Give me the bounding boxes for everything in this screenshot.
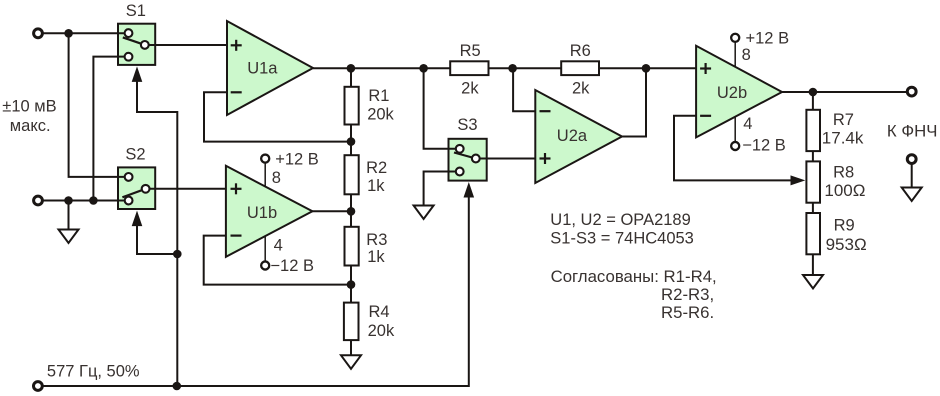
svg-text:U2b: U2b — [717, 84, 747, 102]
svg-text:макс.: макс. — [10, 117, 51, 135]
svg-text:−12 В: −12 В — [270, 257, 314, 275]
svg-text:+12 В: +12 В — [746, 30, 790, 48]
svg-text:+12 В: +12 В — [275, 150, 319, 168]
svg-text:U1, U2 = OPA2189: U1, U2 = OPA2189 — [550, 211, 690, 229]
svg-text:577 Гц, 50%: 577 Гц, 50% — [47, 363, 140, 381]
svg-text:±10 мВ: ±10 мВ — [2, 98, 56, 116]
svg-text:Согласованы: R1-R4,: Согласованы: R1-R4, — [551, 267, 717, 286]
svg-text:S2: S2 — [125, 146, 145, 164]
svg-text:4: 4 — [743, 115, 752, 133]
svg-text:К ФНЧ: К ФНЧ — [887, 122, 938, 141]
svg-text:2k: 2k — [461, 79, 479, 97]
svg-text:100Ω: 100Ω — [824, 181, 865, 200]
svg-text:S1: S1 — [126, 2, 146, 20]
svg-text:S3: S3 — [457, 116, 477, 134]
svg-text:4: 4 — [274, 237, 283, 255]
svg-text:R5: R5 — [460, 42, 481, 60]
svg-text:U2a: U2a — [557, 127, 588, 145]
svg-text:R6: R6 — [570, 42, 591, 60]
svg-text:2k: 2k — [572, 79, 590, 97]
svg-text:R5-R6.: R5-R6. — [661, 303, 714, 322]
svg-text:17.4k: 17.4k — [822, 129, 864, 148]
svg-text:R3: R3 — [366, 231, 387, 249]
svg-text:U1b: U1b — [247, 204, 277, 222]
svg-text:R2: R2 — [366, 159, 387, 177]
svg-text:20k: 20k — [367, 105, 394, 123]
svg-text:R7: R7 — [833, 111, 854, 129]
svg-text:8: 8 — [272, 169, 281, 187]
svg-text:1k: 1k — [367, 177, 385, 195]
svg-text:20k: 20k — [368, 322, 395, 340]
svg-text:R4: R4 — [369, 303, 390, 321]
svg-text:R8: R8 — [833, 164, 854, 182]
svg-text:R2-R3,: R2-R3, — [661, 285, 714, 304]
svg-text:1k: 1k — [367, 248, 385, 266]
svg-text:−12 В: −12 В — [742, 136, 786, 154]
svg-text:R9: R9 — [834, 217, 855, 235]
svg-text:R1: R1 — [368, 87, 389, 105]
svg-text:8: 8 — [742, 46, 751, 64]
svg-text:S1-S3 = 74HC4053: S1-S3 = 74HC4053 — [550, 230, 694, 248]
svg-text:U1a: U1a — [247, 60, 278, 78]
svg-text:953Ω: 953Ω — [826, 235, 867, 254]
